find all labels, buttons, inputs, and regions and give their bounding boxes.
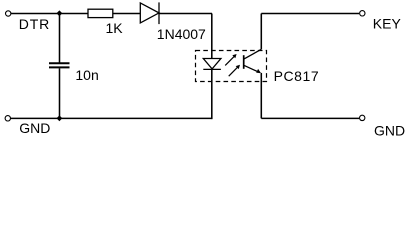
phototransistor emitter lead with arrow [244, 65, 261, 73]
light arrow 2 [229, 65, 240, 76]
svg-text:PC817: PC817 [274, 68, 320, 84]
svg-text:KEY: KEY [373, 15, 402, 31]
node junction top (cap tap) [57, 10, 63, 16]
phototransistor collector lead [244, 49, 262, 59]
wire LED cathode down [211, 69, 213, 119]
wire diode to corner [159, 13, 212, 15]
wire collector up [260, 14, 262, 50]
wire GND left rail [11, 117, 213, 119]
capacitor 10n [49, 63, 70, 67]
svg-text:10n: 10n [75, 67, 98, 83]
node junction bottom (cap return) [57, 115, 63, 121]
terminal GND left [5, 116, 10, 121]
wire down to LED anode [211, 14, 213, 59]
svg-text:GND: GND [19, 120, 50, 136]
wire to GND right [261, 117, 359, 119]
wire emitter down [260, 73, 262, 119]
wire DTR to resistor [11, 13, 88, 15]
terminal DTR [6, 11, 11, 16]
terminal KEY [360, 11, 365, 16]
wire to KEY [261, 13, 359, 15]
wire resistor to diode [113, 13, 140, 15]
diode 1N4007 [140, 2, 159, 24]
svg-text:1K: 1K [106, 20, 124, 36]
resistor 1K [88, 9, 113, 17]
capacitor 10n leg top [59, 14, 61, 63]
phototransistor of PC817 body bar [243, 55, 245, 69]
LED of PC817 [203, 59, 221, 70]
svg-text:GND: GND [374, 122, 405, 138]
svg-text:DTR: DTR [19, 16, 50, 32]
optocoupler U1 PC817 dashed body [196, 51, 267, 82]
terminal GND right [360, 115, 365, 120]
svg-text:1N4007: 1N4007 [157, 26, 206, 42]
capacitor leg bottom [59, 68, 61, 118]
light arrow 1 [225, 54, 236, 65]
